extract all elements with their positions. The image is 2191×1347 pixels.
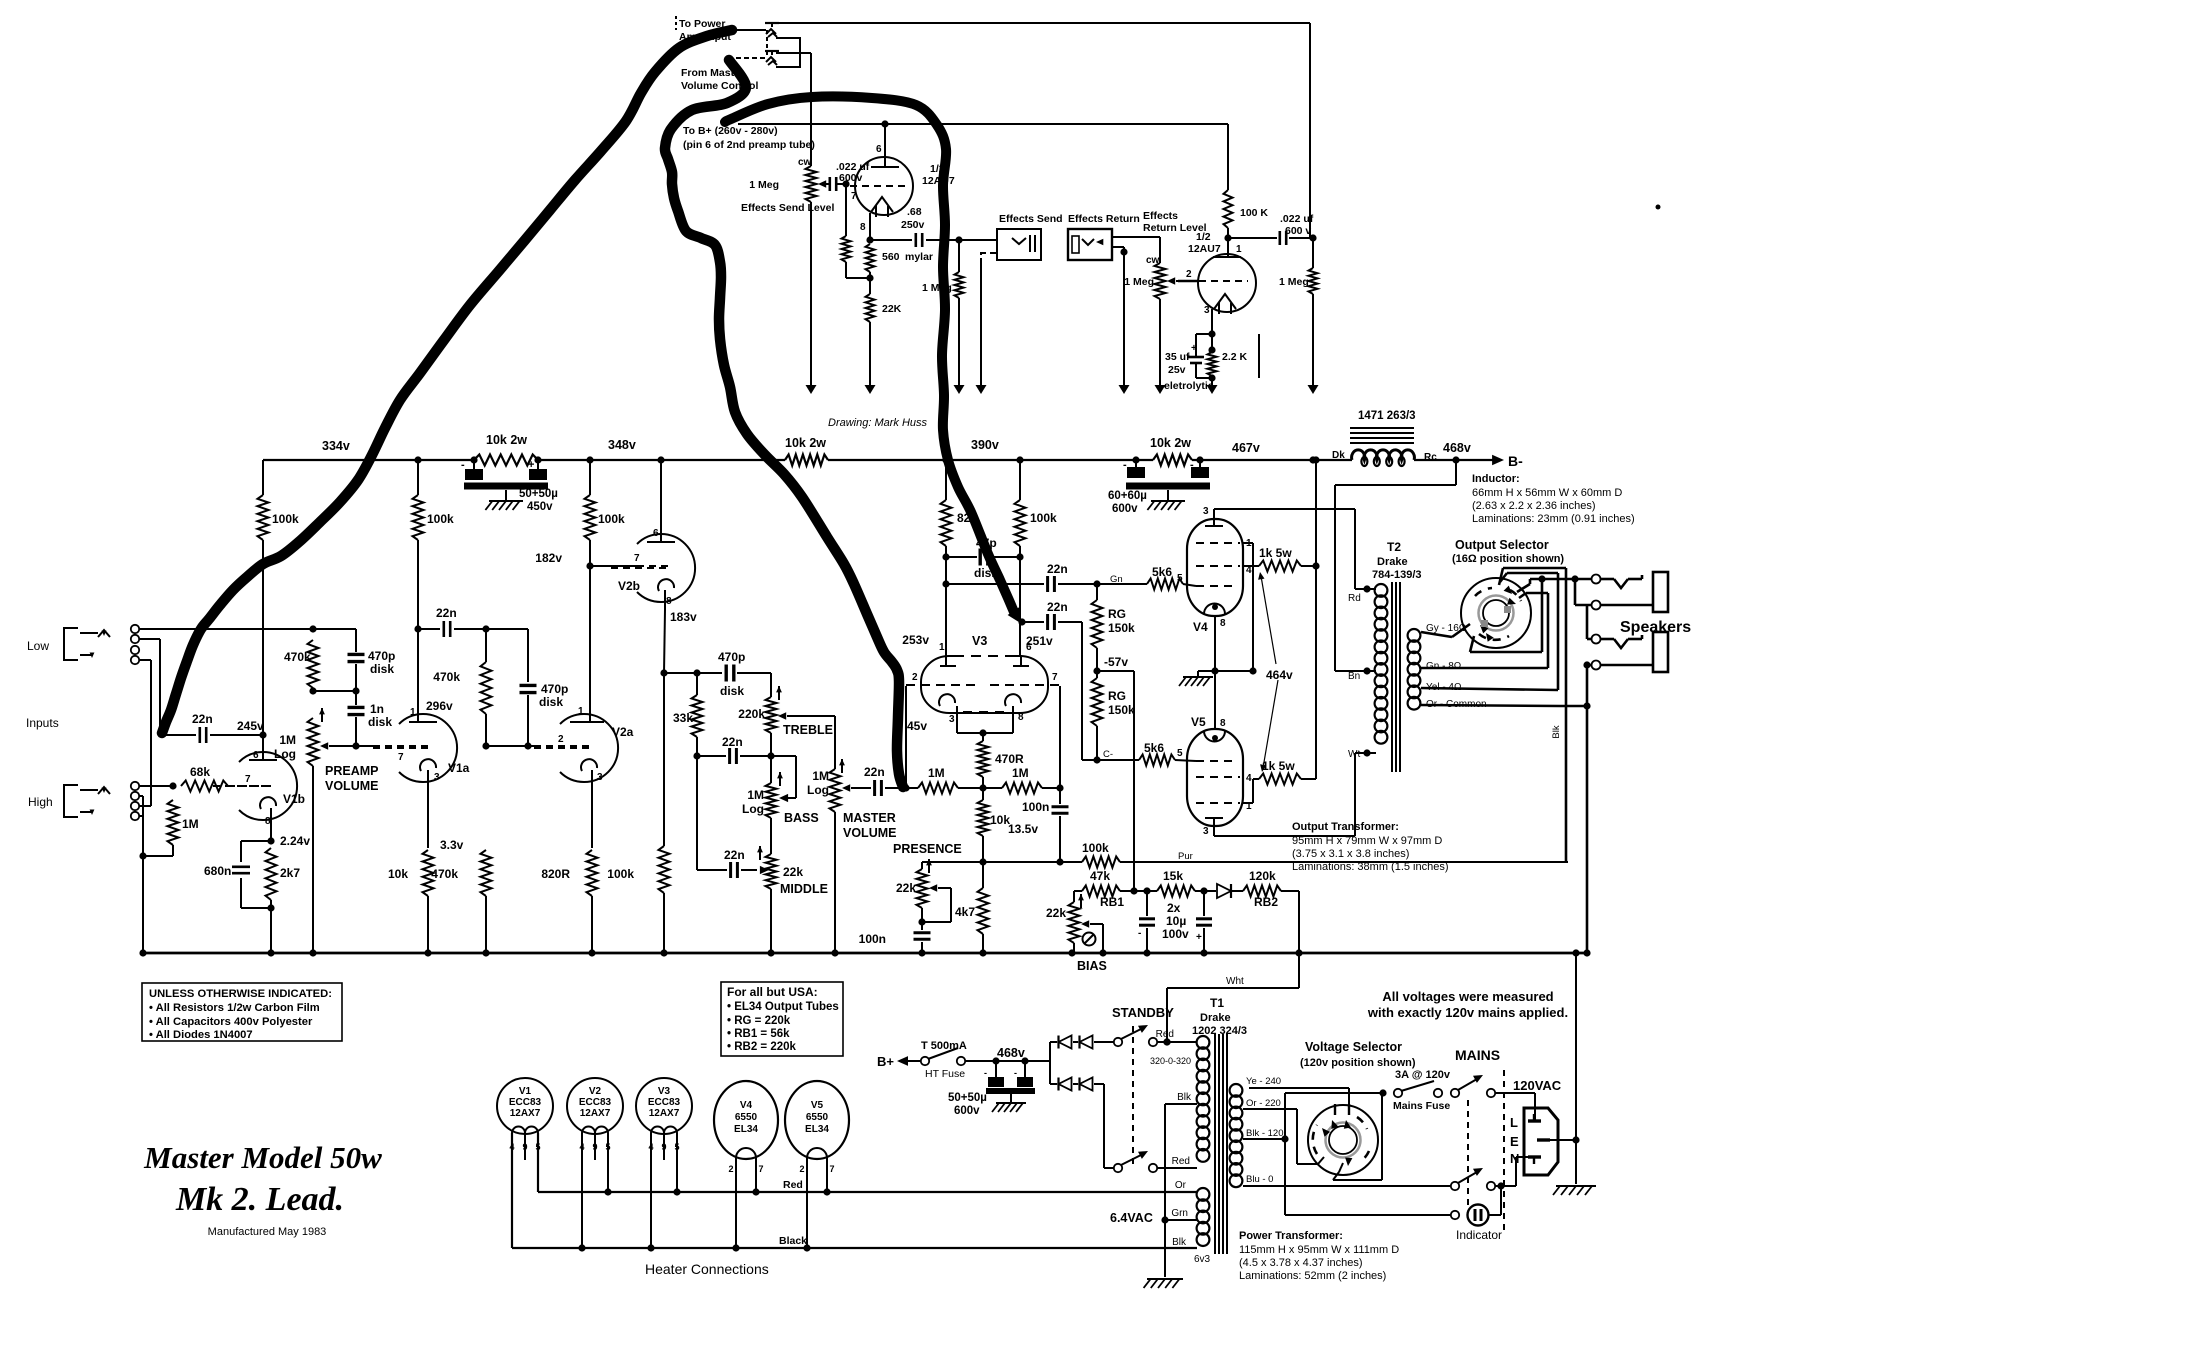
svg-text:Wht: Wht — [1226, 976, 1244, 987]
resistor 820R (V2a cathode) — [587, 850, 598, 953]
wire: V1b cathode — [267, 808, 274, 845]
svg-text:• RB1 = 56k: • RB1 = 56k — [727, 1028, 790, 1040]
svg-text:T1: T1 — [1210, 996, 1224, 1010]
svg-text:Indicator: Indicator — [1456, 1228, 1502, 1242]
capacitor 470p disk (treble) — [726, 665, 771, 698]
svg-text:Voltage Selector: Voltage Selector — [1305, 1040, 1402, 1054]
rotary switch Output Selector — [1461, 578, 1531, 648]
svg-text:+: + — [1196, 932, 1202, 943]
svg-text:1/2: 1/2 — [1196, 231, 1211, 243]
wire: V2b cathode down — [660, 590, 667, 677]
wire: jack normalling links — [767, 30, 811, 67]
svg-text:100k: 100k — [427, 512, 454, 526]
capacitor 50+50u 600v (main filter) — [986, 1061, 1035, 1112]
svg-text:2.24v: 2.24v — [280, 834, 310, 848]
svg-text:45v: 45v — [907, 719, 927, 733]
capacitor .022uf 600v (send) — [826, 177, 850, 191]
svg-text:6v3: 6v3 — [1194, 1254, 1211, 1265]
svg-text:60+60µ: 60+60µ — [1108, 490, 1147, 502]
svg-text:120k: 120k — [1249, 869, 1276, 883]
svg-text:22n: 22n — [724, 848, 745, 862]
svg-text:6550: 6550 — [735, 1112, 758, 1123]
transformer T2 core — [1392, 582, 1400, 772]
tube V5 EL34 — [1187, 729, 1243, 826]
svg-text:470k: 470k — [284, 650, 311, 664]
svg-text:22K: 22K — [882, 303, 902, 315]
svg-text:4k7: 4k7 — [955, 905, 975, 919]
svg-text:467v: 467v — [1232, 441, 1260, 455]
svg-text:• All Capacitors 400v Polyeste: • All Capacitors 400v Polyester — [149, 1016, 313, 1028]
svg-text:50+50µ: 50+50µ — [948, 1092, 987, 1104]
tube V5 cathode — [1204, 731, 1225, 742]
svg-text:Master Model 50w: Master Model 50w — [143, 1140, 382, 1175]
resistor 100k (V1a plate load) — [413, 460, 424, 633]
svg-text:7: 7 — [758, 1164, 763, 1174]
svg-text:470p: 470p — [718, 650, 745, 664]
svg-text:Rd: Rd — [1348, 593, 1361, 604]
svg-text:12AX7: 12AX7 — [580, 1108, 611, 1119]
resistor 470R (V3 tail upper) — [978, 741, 989, 792]
wire: 4ohm tap loop — [1421, 573, 1558, 690]
svg-text:V2: V2 — [589, 1086, 602, 1097]
svg-text:1k 5w: 1k 5w — [1259, 546, 1292, 560]
wire: low tip to grid network — [139, 625, 317, 632]
svg-text:3.3v: 3.3v — [440, 838, 464, 852]
switch gang dashes — [1468, 1070, 1504, 1232]
svg-text:All voltages were measured: All voltages were measured — [1382, 989, 1553, 1004]
svg-text:ECC83: ECC83 — [648, 1097, 681, 1108]
svg-text:disk: disk — [368, 715, 392, 729]
tube V3 12AX7 phase inverter — [921, 656, 1048, 713]
wire: Wht to power transformer — [1163, 891, 1299, 1046]
svg-text:22k: 22k — [783, 865, 803, 879]
svg-text:Log: Log — [807, 783, 829, 797]
svg-text:T2: T2 — [1387, 540, 1401, 554]
svg-text:Laminations: 38mm (1.5 inches): Laminations: 38mm (1.5 inches) — [1292, 861, 1449, 873]
diode rectifier D3 D4 — [1050, 1078, 1114, 1169]
wire: treble bottom to bass top — [767, 733, 774, 783]
svg-text:Red: Red — [783, 1179, 803, 1191]
tube V4 EL34 — [1187, 519, 1243, 616]
svg-text:disk: disk — [974, 566, 998, 580]
capacitor .022 uf 600 v (return output) — [1228, 231, 1317, 245]
resistor 15k (bias) — [1134, 886, 1204, 897]
svg-text:560: 560 — [882, 251, 900, 263]
wire: high sleeve to ground rail — [139, 796, 147, 953]
svg-text:6550: 6550 — [806, 1112, 829, 1123]
jack speaker 2 — [1592, 632, 1669, 672]
svg-text:12AX7: 12AX7 — [510, 1108, 541, 1119]
capacitor 680n (cathode bypass) — [232, 841, 271, 908]
svg-text:V4: V4 — [1193, 620, 1208, 634]
capacitor 470p disk (V2a) — [486, 629, 537, 750]
svg-text:3: 3 — [434, 772, 440, 783]
wire: B+ rail 467v segment — [1192, 456, 1352, 463]
potentiometer 22k bias — [1069, 891, 1084, 953]
svg-text:470k: 470k — [433, 670, 460, 684]
svg-text:22n: 22n — [1047, 562, 1068, 576]
resistor 120k RB2 — [1243, 886, 1299, 897]
tube V1b triode — [213, 752, 297, 820]
wire: V3 heater pins — [651, 1133, 677, 1248]
svg-text:115mm H x 95mm W x 111mm D: 115mm H x 95mm W x 111mm D — [1239, 1244, 1399, 1256]
potentiometer MIDDLE 22k — [766, 854, 777, 953]
svg-text:1 Meg: 1 Meg — [1279, 276, 1309, 288]
svg-text:100k: 100k — [607, 867, 634, 881]
resistor 22K (send cathode) — [865, 278, 876, 394]
resistor 100k (V3 plate right) — [1015, 460, 1026, 655]
svg-text:22n: 22n — [1047, 600, 1068, 614]
svg-text:-: - — [1014, 1068, 1017, 1078]
svg-text:Effects: Effects — [1143, 210, 1178, 222]
svg-text:-: - — [984, 1068, 987, 1078]
svg-text:7: 7 — [829, 1164, 834, 1174]
freehand stroke A: To Power Amp Input annotation — [162, 30, 732, 733]
svg-text:TREBLE: TREBLE — [783, 723, 833, 737]
resistor 10k 2w (334v-348v) — [470, 455, 541, 466]
wire: bass bottom to middle top — [770, 818, 772, 854]
resistor 100 K (U1b plate) — [1224, 124, 1233, 242]
svg-text:6.4VAC: 6.4VAC — [1110, 1211, 1153, 1225]
svg-text:MASTER: MASTER — [843, 811, 896, 825]
svg-text:STANDBY: STANDBY — [1112, 1005, 1174, 1020]
svg-text:334v: 334v — [322, 439, 350, 453]
svg-text:470p: 470p — [541, 682, 568, 696]
svg-text:100k: 100k — [598, 512, 625, 526]
svg-text:Speakers: Speakers — [1620, 619, 1691, 636]
stray dot — [1656, 205, 1661, 210]
svg-text:1M: 1M — [1012, 766, 1029, 780]
svg-text:10k 2w: 10k 2w — [486, 433, 527, 447]
jack Low input — [64, 628, 110, 660]
resistor 560 (send cathode) — [866, 244, 875, 278]
ground: output cathodes — [1179, 671, 1215, 686]
svg-text:V1b: V1b — [283, 792, 305, 806]
wire: NFB line — [922, 861, 1082, 863]
wire: tone stack feed — [664, 672, 722, 674]
resistor 2k7 (V1b cathode) — [266, 848, 277, 953]
wire: main ground rail — [143, 952, 1587, 955]
svg-text:V3: V3 — [658, 1086, 671, 1097]
capacitor 100n (presence) — [914, 922, 931, 953]
svg-text:+: + — [528, 459, 534, 471]
wire: return jack sleeve to ground — [1112, 247, 1130, 394]
resistor 1k 5w (V5 screen) — [1253, 774, 1316, 785]
svg-text:470p: 470p — [368, 649, 395, 663]
svg-text:Bn: Bn — [1348, 671, 1360, 682]
svg-text:disk: disk — [370, 662, 394, 676]
svg-text:VOLUME: VOLUME — [843, 826, 896, 840]
wire: V3 left grid network — [905, 686, 907, 788]
tube base V2 ECC83 12AX7 — [567, 1078, 623, 1134]
svg-text:183v: 183v — [670, 610, 697, 624]
svg-text:470R: 470R — [995, 752, 1024, 766]
wire: stray segment — [1258, 334, 1260, 378]
svg-text:100n: 100n — [1022, 800, 1049, 814]
svg-text:Drawing: Mark Huss: Drawing: Mark Huss — [828, 417, 928, 429]
svg-text:3: 3 — [1203, 826, 1209, 837]
svg-text:C-: C- — [1103, 749, 1113, 760]
resistor 5k6 (V5 grid stopper) — [1139, 755, 1196, 766]
svg-text:66mm H x 56mm W x 60mm D: 66mm H x 56mm W x 60mm D — [1472, 487, 1622, 499]
wire: plug earth to ground — [1550, 953, 1596, 1195]
svg-text:T 500mA: T 500mA — [921, 1040, 967, 1052]
transformer T1 heater winding — [1197, 1188, 1210, 1246]
svg-text:7: 7 — [245, 774, 251, 785]
svg-text:Laminations: 23mm (0.91 inches: Laminations: 23mm (0.91 inches) — [1472, 513, 1635, 525]
wire: speaker return to ground rail — [1583, 661, 1592, 953]
resistor RG 150k (V5 grid) — [1092, 678, 1103, 760]
wire: return pot wiper to U1b grid — [1178, 280, 1199, 283]
resistor 100k (V2b cathode) — [659, 673, 670, 953]
svg-text:Red: Red — [1172, 1156, 1190, 1167]
svg-text:251v: 251v — [1026, 634, 1053, 648]
svg-text:-: - — [1123, 459, 1127, 471]
svg-text:784-139/3: 784-139/3 — [1372, 569, 1422, 581]
svg-text:-57v: -57v — [1104, 655, 1128, 669]
svg-text:.022 uf: .022 uf — [1280, 213, 1314, 225]
svg-text:8: 8 — [666, 596, 672, 607]
inductor choke 1471 263/3 — [1352, 450, 1415, 460]
svg-text:(2.63 x 2.2 x 2.36 inches): (2.63 x 2.2 x 2.36 inches) — [1472, 500, 1596, 512]
svg-text:220k: 220k — [738, 707, 765, 721]
svg-text:47k: 47k — [1090, 869, 1110, 883]
wire: 468v node — [965, 1057, 1050, 1064]
svg-text:12AX7: 12AX7 — [649, 1108, 680, 1119]
svg-text:V4: V4 — [740, 1100, 753, 1111]
wire: send pot to ground — [806, 202, 817, 394]
capacitor 22n (V1b plate to effects send) — [162, 727, 267, 743]
svg-text:• All Resistors 1/2w Carbon Fi: • All Resistors 1/2w Carbon Film — [149, 1002, 320, 1014]
svg-text:22k: 22k — [896, 881, 916, 895]
svg-text:B-: B- — [1508, 453, 1523, 469]
tube V2b triode (cathode follower) — [611, 534, 695, 602]
wire: send jack normal (dashed) — [981, 253, 997, 258]
tube V2a triode — [534, 714, 618, 782]
note box: For all but USA — [721, 982, 843, 1056]
potentiometer PRESENCE 22k — [917, 859, 932, 908]
svg-text:Effects Send: Effects Send — [999, 213, 1063, 225]
svg-text:253v: 253v — [902, 633, 929, 647]
svg-text:1M: 1M — [279, 733, 296, 747]
svg-text:Wt: Wt — [1348, 749, 1360, 760]
svg-text:10µ: 10µ — [1166, 914, 1186, 928]
svg-text:470k: 470k — [431, 867, 458, 881]
wire: speaker series link — [1575, 605, 1592, 639]
svg-text:100k: 100k — [272, 512, 299, 526]
resistor 1M (PI left) — [906, 783, 983, 794]
svg-text:3: 3 — [597, 772, 603, 783]
wire: V2a plate to V2b grid — [590, 565, 637, 567]
svg-text:10k 2w: 10k 2w — [1150, 436, 1191, 450]
capacitor 60+60u 600v filter — [1126, 460, 1210, 510]
wire: to V2a grid — [486, 745, 534, 747]
resistor 68k (grid stopper) — [181, 781, 228, 792]
resistor 1 Meg (output) — [1308, 238, 1319, 394]
svg-text:E: E — [1510, 1134, 1519, 1149]
switch MAINS lower — [1451, 1172, 1477, 1190]
svg-text:390v: 390v — [971, 438, 999, 452]
svg-text:8: 8 — [860, 222, 866, 233]
capacitor 50+50u 450v filter — [464, 460, 548, 510]
svg-text:12AU7: 12AU7 — [1188, 243, 1221, 255]
wire: high tip to grid stopper — [139, 782, 177, 789]
svg-text:6: 6 — [653, 528, 659, 539]
svg-text:Inductor:: Inductor: — [1472, 473, 1520, 485]
wire: selector lower loop — [1470, 579, 1542, 652]
svg-text:Ye - 240: Ye - 240 — [1246, 1076, 1281, 1087]
transformer T1 core — [1215, 1034, 1227, 1254]
wire: bias feed from -57v node — [1097, 671, 1138, 895]
freehand stroke B: From Master Volume annotation — [665, 60, 903, 787]
svg-text:Mains Fuse: Mains Fuse — [1393, 1100, 1450, 1112]
svg-text:V3: V3 — [972, 634, 987, 648]
wire: B+ 468v to OT Bn centre tap — [1335, 460, 1456, 675]
resistor 100k (V2a plate load) — [585, 460, 596, 570]
svg-text:RG: RG — [1108, 689, 1126, 703]
svg-text:600 v: 600 v — [1285, 225, 1311, 237]
resistor 1 Meg (send output load) — [954, 240, 965, 394]
svg-text:Blk - 120: Blk - 120 — [1246, 1128, 1284, 1139]
svg-text:1M: 1M — [812, 769, 829, 783]
svg-text:Power Transformer:: Power Transformer: — [1239, 1230, 1343, 1242]
svg-text:disk: disk — [539, 695, 563, 709]
wire: selector to speaker tip — [1517, 575, 1592, 605]
svg-text:3: 3 — [1203, 506, 1209, 517]
capacitor 1n disk — [348, 691, 365, 750]
capacitor 35 uf 25v electrolytic — [1188, 350, 1216, 382]
potentiometer effects return level 1 Meg — [1155, 263, 1179, 299]
svg-text:182v: 182v — [535, 551, 562, 565]
wire: V5 g3 strap — [1243, 779, 1253, 803]
resistor 82k (V3 plate left) — [941, 460, 952, 655]
wire: 8ohm tap loop — [1421, 593, 1548, 668]
resistor 1M (input load) — [143, 800, 179, 856]
jack box Effects Send — [959, 229, 1041, 260]
svg-text:450v: 450v — [527, 501, 553, 513]
wire: jack link low-high — [139, 660, 151, 806]
svg-text:35 uf: 35 uf — [1165, 351, 1190, 363]
tube U1a 1/2 12AU7 (effects send) — [855, 157, 913, 217]
svg-text:EL34: EL34 — [805, 1124, 829, 1135]
wire: V3 right grid network — [1059, 686, 1061, 788]
wire: standby to T1 Red taps — [1157, 1038, 1197, 1168]
svg-text:Gn - 8Ω: Gn - 8Ω — [1426, 661, 1462, 672]
switch STANDBY upper — [1114, 1028, 1157, 1046]
resistor 1 Meg (send feedback) — [842, 184, 874, 282]
wire: U1b cathode to RC network — [1196, 309, 1216, 354]
svg-text:Log: Log — [742, 802, 764, 816]
svg-text:To B+ (260v - 280v): To B+ (260v - 280v) — [683, 125, 778, 137]
resistor 10k 2w (390v-467v) — [1132, 455, 1203, 466]
wire: B+ rail 334v segment — [263, 459, 474, 461]
wire: heater bus Red — [538, 1133, 1197, 1192]
tube V1a triode — [373, 714, 457, 782]
rotary switch Voltage Selector — [1308, 1105, 1378, 1175]
svg-text:3A @ 120v: 3A @ 120v — [1395, 1069, 1451, 1081]
wire: B+ rail 390v segment — [828, 456, 1153, 463]
svg-text:Or - 220: Or - 220 — [1246, 1098, 1281, 1109]
capacitor 22n (to V4 grid) — [946, 576, 1147, 592]
svg-text:1202 324/3: 1202 324/3 — [1192, 1025, 1247, 1037]
svg-text:Rc: Rc — [1424, 452, 1437, 463]
svg-text:1n: 1n — [370, 702, 384, 716]
svg-text:(3.75 x 3.1 x 3.8 inches): (3.75 x 3.1 x 3.8 inches) — [1292, 848, 1409, 860]
wire: V4 plate to OT Rd — [1214, 509, 1376, 593]
tube base V1 ECC83 12AX7 — [497, 1078, 553, 1134]
wire: from-master-volume feed down to send level pot — [810, 53, 812, 166]
tube base V4 6550 EL34 — [714, 1081, 778, 1159]
capacitor 10u 100v (bias 2) — [1196, 887, 1212, 953]
wire: B+ rail 468v to B+ — [1414, 456, 1497, 463]
svg-text:(120v position shown): (120v position shown) — [1300, 1057, 1416, 1069]
resistor 470k (bright network) — [308, 640, 319, 695]
svg-text:1: 1 — [578, 706, 584, 717]
svg-text:4: 4 — [1246, 773, 1252, 784]
resistor 10k (V1a cathode) — [423, 850, 434, 953]
svg-text:464v: 464v — [1266, 668, 1293, 682]
capacitor 22n (middle) — [697, 756, 757, 878]
svg-text:100k: 100k — [1030, 511, 1057, 525]
svg-text:1M: 1M — [747, 788, 764, 802]
svg-text:820R: 820R — [541, 867, 570, 881]
tube base V3 ECC83 12AX7 — [636, 1078, 692, 1134]
svg-text:245v: 245v — [237, 719, 264, 733]
resistor 470k (V1a tail) — [481, 850, 492, 953]
svg-text:-: - — [461, 459, 465, 471]
capacitor 22n (bass) — [697, 748, 796, 798]
svg-text:7: 7 — [851, 191, 857, 202]
svg-text:10k 2w: 10k 2w — [785, 436, 826, 450]
capacitor 22n (to V5 grid) — [1022, 614, 1139, 764]
svg-text:MIDDLE: MIDDLE — [780, 882, 828, 896]
wire: V1 heater pins — [512, 1133, 538, 1248]
wire: treble wiper to master volume — [790, 716, 835, 769]
wire: T1 mains taps — [1249, 1088, 1349, 1104]
svg-text:1: 1 — [939, 642, 945, 653]
svg-text:22n: 22n — [436, 606, 457, 620]
svg-text:1M: 1M — [182, 817, 199, 831]
capacitor 22n (V1a coupling) — [418, 621, 490, 637]
resistor 100k (NFB) — [1082, 857, 1568, 868]
capacitor 22n (master volume out) — [852, 780, 910, 796]
svg-text:Black: Black — [779, 1235, 807, 1247]
svg-text:250v: 250v — [901, 219, 925, 231]
capacitor 470p disk (bright) — [313, 629, 365, 695]
svg-text:V2a: V2a — [612, 725, 634, 739]
svg-text:PRESENCE: PRESENCE — [893, 842, 962, 856]
svg-text:For all but USA:: For all but USA: — [727, 985, 818, 999]
indicator lamp — [1285, 1139, 1451, 1215]
svg-text:V5: V5 — [811, 1100, 824, 1111]
svg-text:82k: 82k — [957, 511, 977, 525]
svg-text:33k: 33k — [673, 711, 693, 725]
tube U1b 1/2 12AU7 (effects return) — [1198, 254, 1256, 314]
svg-text:2x: 2x — [1167, 901, 1181, 915]
svg-text:120VAC: 120VAC — [1513, 1078, 1562, 1093]
resistor 2.2 K (U1b cathode) — [1207, 352, 1218, 394]
svg-text:Blk: Blk — [1172, 1237, 1187, 1248]
svg-text:6: 6 — [253, 750, 259, 761]
svg-text:10k: 10k — [990, 813, 1010, 827]
svg-text:468v: 468v — [997, 1046, 1025, 1060]
svg-text:PREAMP: PREAMP — [325, 764, 378, 778]
svg-text:1: 1 — [1236, 244, 1242, 255]
svg-text:3: 3 — [1204, 305, 1210, 316]
svg-text:5: 5 — [1177, 573, 1183, 584]
jack speaker 1 — [1592, 572, 1669, 612]
svg-text:1471 263/3: 1471 263/3 — [1358, 410, 1416, 422]
